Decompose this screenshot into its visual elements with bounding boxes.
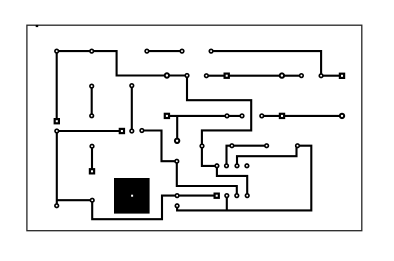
pad P26 <box>265 144 269 148</box>
wire net15 bottom bus <box>177 146 311 211</box>
wire branch under IC <box>57 196 217 220</box>
wire row F <box>206 75 301 77</box>
wire short vertical V3 <box>91 146 93 171</box>
wire short vertical V2 <box>131 86 133 131</box>
wire left rail down <box>56 131 58 206</box>
pad P24 <box>200 144 204 148</box>
square pad S1 <box>54 118 60 124</box>
pad P15 <box>130 129 134 133</box>
pad P33 <box>175 194 179 198</box>
board outline <box>27 25 362 231</box>
pad P19 big <box>340 114 344 118</box>
pad P13 <box>130 84 134 88</box>
pad P16 <box>225 114 229 118</box>
wire net15 branch <box>226 196 228 211</box>
pad P36 <box>245 194 249 198</box>
pad P39 <box>175 204 179 208</box>
square pad S2 <box>119 128 125 134</box>
pad P34 <box>225 194 229 198</box>
pad P10 <box>300 74 304 78</box>
pad P7 <box>185 74 189 78</box>
square pad S7 <box>214 193 220 199</box>
pad P21 <box>140 129 144 133</box>
wire net11 <box>167 115 242 117</box>
square pad S5 <box>224 73 230 79</box>
pad P1 <box>55 49 59 53</box>
pad P9 big <box>280 73 284 77</box>
square pad S4 <box>164 113 170 119</box>
pad P35 <box>235 194 239 198</box>
pad P5 <box>209 49 213 53</box>
pad P17 <box>240 114 244 118</box>
square pad S3 <box>89 168 95 174</box>
pad P30 <box>225 164 229 168</box>
wire net10 <box>142 131 237 196</box>
pad P23 <box>90 144 94 148</box>
wire horizontal H7 <box>57 130 122 132</box>
pad P31 <box>235 164 239 168</box>
pad P11 <box>319 74 323 78</box>
wire net16 staircase <box>217 166 247 196</box>
pad P37 <box>90 198 94 202</box>
component IC1 pin-1 dot <box>131 195 133 197</box>
pad P4 <box>180 49 184 53</box>
fiducial tick on top border <box>36 25 39 27</box>
pad P8 <box>205 74 209 78</box>
pad P29 <box>215 164 219 168</box>
wire net D top-right <box>211 51 342 76</box>
wire net1 top-left to connector <box>57 51 252 166</box>
pad P22 big <box>175 139 179 143</box>
square pad S8 <box>279 113 285 119</box>
pad P14 <box>90 114 94 118</box>
component IC1 body <box>114 178 150 214</box>
pad P28 <box>175 159 179 163</box>
square pad S6 <box>339 73 345 79</box>
wire segment C <box>147 50 182 52</box>
pad P20 <box>55 129 59 133</box>
wire net1 drop to square pad <box>56 51 58 121</box>
pad P12 <box>90 84 94 88</box>
pad P3 <box>145 49 149 53</box>
pad P6 big <box>165 73 169 77</box>
wire net12 <box>262 115 342 117</box>
pad P18 <box>260 114 264 118</box>
pad P32 isolated <box>245 164 249 168</box>
wire short vertical V1 <box>91 86 93 116</box>
pad P25 <box>230 144 234 148</box>
wire net13 <box>227 146 267 166</box>
wire net14 <box>237 146 297 166</box>
pad P27 <box>296 144 300 148</box>
pad P2 <box>90 49 94 53</box>
pad P38 <box>55 204 59 208</box>
wire net11 branch <box>176 116 178 141</box>
